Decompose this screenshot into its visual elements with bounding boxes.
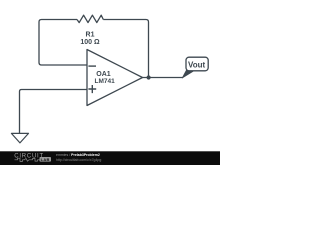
Vout flag box bbox=[186, 57, 208, 71]
svg-text:Vout: Vout bbox=[188, 60, 206, 69]
wire from op-amp inverting input up and across to resistor R1 left terminal bbox=[39, 20, 87, 66]
ground bbox=[11, 133, 28, 143]
svg-text:LAB: LAB bbox=[41, 157, 50, 162]
wire from op-amp non-inverting input left and down to ground bbox=[20, 90, 88, 134]
svg-text:OA1: OA1 bbox=[96, 71, 111, 78]
CircuitLab logo LAB badge bbox=[40, 157, 52, 162]
resistor R1 (zigzag body) bbox=[77, 15, 103, 22]
op-amp inverting input marker (minus) bbox=[88, 65, 96, 67]
op-amp U1 triangle body bbox=[87, 50, 143, 106]
svg-text:100 Ω: 100 Ω bbox=[80, 39, 100, 46]
svg-text:emmies / Prelab3Problem2: emmies / Prelab3Problem2 bbox=[56, 153, 100, 157]
op-amp non-inverting input marker (plus) bbox=[88, 85, 96, 93]
CircuitLab logo waveform squiggle bbox=[15, 158, 40, 161]
wire from resistor R1 right terminal across and down to output node bbox=[103, 20, 148, 78]
footer bar bbox=[0, 151, 220, 165]
svg-text:LM741: LM741 bbox=[95, 78, 116, 85]
svg-text:http://circuitlab.com/c/x7g4pg: http://circuitlab.com/c/x7g4pg bbox=[56, 158, 101, 162]
Vout flag tail bbox=[182, 70, 194, 78]
wire op-amp output to Vout flag bbox=[143, 77, 184, 79]
node junction dot (feedback joins output) bbox=[147, 75, 151, 79]
svg-text:R1: R1 bbox=[86, 31, 95, 38]
